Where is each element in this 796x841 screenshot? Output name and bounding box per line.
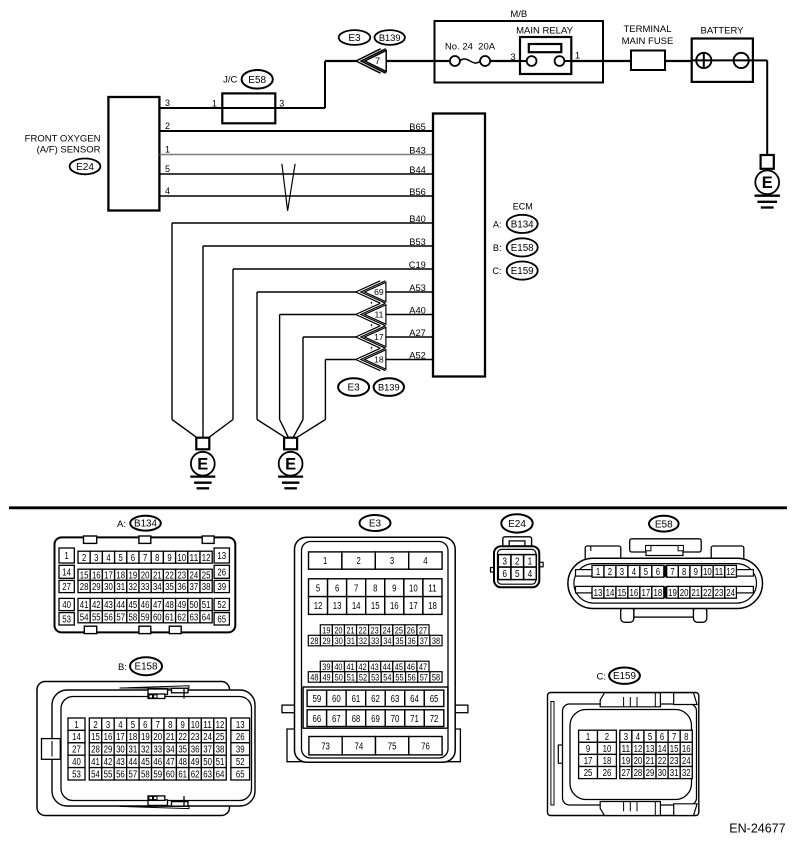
svg-text:3: 3	[165, 98, 170, 108]
svg-text:50: 50	[190, 600, 199, 611]
svg-text:61: 61	[352, 694, 361, 705]
wire main bus	[386, 59, 767, 62]
svg-text:62: 62	[177, 612, 186, 623]
svg-text:4: 4	[165, 186, 170, 196]
ECM pin labels	[409, 122, 426, 361]
svg-text:11: 11	[428, 583, 437, 594]
svg-text:25: 25	[584, 768, 593, 779]
svg-text:12: 12	[726, 567, 735, 578]
E158 bottom latch	[120, 796, 190, 809]
svg-text:69: 69	[374, 287, 384, 297]
svg-text:25: 25	[216, 732, 225, 743]
E3 row 66-72	[307, 710, 444, 727]
svg-text:MAIN RELAY: MAIN RELAY	[516, 26, 574, 37]
svg-text:41: 41	[91, 757, 100, 768]
svg-text:7: 7	[375, 56, 380, 67]
wire B43 shield	[160, 154, 434, 156]
ground E right	[278, 438, 303, 489]
svg-text:30: 30	[104, 582, 113, 593]
wire A40	[280, 315, 433, 420]
svg-text:18: 18	[129, 732, 138, 743]
svg-text:B134: B134	[134, 519, 157, 530]
svg-text:B56: B56	[409, 187, 426, 197]
junction connector J/C E58	[212, 70, 284, 123]
svg-text:13: 13	[646, 744, 655, 755]
svg-text:60: 60	[166, 769, 175, 780]
svg-text:55: 55	[395, 671, 403, 682]
svg-text:55: 55	[104, 769, 113, 780]
svg-text:E24: E24	[76, 162, 94, 173]
svg-text:14: 14	[606, 588, 615, 599]
svg-text:15: 15	[618, 588, 627, 599]
E58 pin row 13-24	[592, 586, 664, 599]
svg-text:3: 3	[502, 556, 507, 568]
svg-text:E3: E3	[369, 519, 382, 530]
ECM connector C: E159	[492, 262, 537, 280]
svg-text:7: 7	[672, 732, 677, 743]
svg-text:5: 5	[648, 732, 653, 743]
svg-text:22: 22	[358, 624, 366, 635]
svg-text:62: 62	[191, 769, 200, 780]
svg-text:64: 64	[216, 769, 225, 780]
connector B139 oval top	[375, 30, 405, 45]
svg-text:8: 8	[373, 583, 378, 594]
svg-text:62: 62	[371, 694, 380, 705]
svg-text:45: 45	[129, 600, 138, 611]
svg-text:1: 1	[165, 145, 170, 155]
svg-text:15: 15	[91, 732, 100, 743]
svg-text:11: 11	[715, 567, 724, 578]
svg-text:12: 12	[216, 720, 225, 731]
svg-text:A52: A52	[409, 351, 426, 361]
wire B44	[160, 173, 434, 175]
svg-text:20: 20	[634, 756, 643, 767]
svg-text:57: 57	[116, 612, 125, 623]
svg-text:51: 51	[202, 600, 211, 611]
svg-text:27: 27	[62, 582, 71, 593]
E3 rows 59-72 box	[303, 687, 448, 728]
svg-text:37: 37	[420, 635, 428, 646]
fuse box M/B	[435, 9, 604, 83]
svg-text:38: 38	[432, 635, 440, 646]
svg-text:52: 52	[217, 600, 226, 611]
svg-text:26: 26	[603, 768, 612, 779]
label E3 bottom	[360, 515, 391, 531]
svg-text:E: E	[762, 174, 773, 192]
svg-text:33: 33	[371, 635, 379, 646]
svg-text:56: 56	[116, 769, 125, 780]
svg-text:2: 2	[356, 556, 361, 567]
svg-text:1: 1	[528, 556, 533, 568]
svg-text:EN-24677: EN-24677	[729, 821, 785, 835]
svg-text:13: 13	[236, 720, 245, 731]
svg-text:4: 4	[632, 567, 637, 578]
svg-text:44: 44	[129, 757, 138, 768]
svg-text:5: 5	[316, 583, 321, 594]
svg-text:21: 21	[166, 732, 175, 743]
svg-text:8: 8	[155, 553, 160, 564]
svg-text:13: 13	[333, 601, 342, 612]
svg-text:40: 40	[62, 600, 71, 611]
svg-text:66: 66	[313, 714, 322, 725]
svg-text:3: 3	[624, 732, 629, 743]
svg-text:14: 14	[658, 744, 667, 755]
wire A53	[257, 292, 433, 420]
E158 left column pins	[68, 718, 85, 780]
svg-text:31: 31	[116, 582, 125, 593]
svg-text:26: 26	[217, 567, 226, 578]
ground E left	[190, 438, 215, 489]
label B: E158	[118, 657, 162, 675]
svg-text:36: 36	[177, 582, 186, 593]
svg-text:23: 23	[371, 624, 379, 635]
svg-text:54: 54	[383, 671, 391, 682]
svg-text:24: 24	[682, 756, 691, 767]
svg-text:27: 27	[419, 624, 427, 635]
svg-text:10: 10	[409, 583, 418, 594]
connector E3 oval bottom	[338, 378, 369, 396]
svg-text:1: 1	[586, 732, 591, 743]
E3 row 12-18	[309, 597, 442, 615]
E159 pin grid left block	[579, 730, 617, 743]
svg-text:36: 36	[408, 635, 416, 646]
label C: E159	[597, 668, 640, 684]
svg-text:42: 42	[92, 600, 101, 611]
svg-text:24: 24	[203, 732, 212, 743]
svg-text:7: 7	[156, 720, 161, 731]
wire B56	[160, 195, 434, 197]
svg-text:9: 9	[586, 744, 591, 755]
svg-text:E159: E159	[511, 266, 534, 277]
svg-text:28: 28	[91, 745, 100, 756]
svg-text:13: 13	[217, 551, 226, 562]
svg-text:75: 75	[388, 741, 397, 752]
svg-text:67: 67	[332, 714, 341, 725]
svg-text:23: 23	[715, 588, 724, 599]
wire battery ground drop	[766, 60, 768, 155]
svg-text:21: 21	[646, 756, 655, 767]
svg-text:12: 12	[202, 553, 211, 564]
svg-text:17: 17	[642, 588, 651, 599]
svg-text:32: 32	[682, 768, 691, 779]
svg-text:A27: A27	[409, 328, 426, 338]
svg-text:65: 65	[217, 614, 226, 625]
svg-text:28: 28	[80, 582, 89, 593]
svg-text:30: 30	[658, 768, 667, 779]
E159 pin grid right block	[620, 730, 692, 743]
svg-text:(A/F) SENSOR: (A/F) SENSOR	[37, 145, 101, 156]
svg-text:63: 63	[391, 694, 400, 705]
svg-text:43: 43	[116, 757, 125, 768]
svg-text:4: 4	[528, 568, 533, 580]
ECM box	[433, 114, 485, 377]
connector E24 pinout	[491, 537, 544, 588]
svg-text:ECM: ECM	[513, 201, 533, 211]
svg-text:1: 1	[64, 551, 69, 562]
svg-text:E58: E58	[655, 519, 673, 530]
svg-text:17: 17	[374, 332, 384, 342]
svg-text:9: 9	[392, 583, 397, 594]
connector B E158 pinout shell	[37, 682, 255, 816]
connector C E159 pinout shell	[548, 693, 699, 816]
svg-text:58: 58	[129, 612, 138, 623]
E3 row 19-27	[320, 624, 429, 635]
svg-text:39: 39	[322, 661, 330, 672]
ECM connector A: B134	[493, 215, 538, 233]
svg-text:47: 47	[419, 661, 427, 672]
svg-text:31: 31	[347, 635, 355, 646]
E159 bottom latch	[600, 802, 697, 816]
svg-text:14: 14	[62, 567, 71, 578]
svg-text:32: 32	[129, 582, 138, 593]
svg-text:7: 7	[354, 583, 359, 594]
B134 right column pins	[214, 548, 229, 625]
svg-text:63: 63	[203, 769, 212, 780]
front oxygen sensor E24	[25, 97, 160, 211]
svg-text:31: 31	[129, 745, 138, 756]
label E24 bottom	[501, 514, 532, 532]
svg-text:43: 43	[104, 600, 113, 611]
E3 row 59-65	[307, 690, 444, 706]
svg-text:36: 36	[191, 745, 200, 756]
svg-text:23: 23	[191, 732, 200, 743]
E24 pin grid	[498, 555, 536, 568]
svg-text:57: 57	[129, 769, 138, 780]
svg-text:54: 54	[91, 769, 100, 780]
svg-text:59: 59	[313, 694, 322, 705]
svg-text:28: 28	[310, 635, 318, 646]
arrow 7	[356, 49, 386, 73]
svg-text:40: 40	[72, 757, 81, 768]
svg-text:E159: E159	[613, 671, 636, 682]
svg-text:B43: B43	[409, 146, 426, 156]
svg-text:32: 32	[141, 745, 150, 756]
svg-text:68: 68	[352, 714, 361, 725]
svg-text:27: 27	[621, 768, 630, 779]
right ground funnel	[257, 420, 325, 438]
svg-text:15: 15	[371, 601, 380, 612]
wire B65	[160, 130, 434, 132]
svg-text:40: 40	[334, 661, 342, 672]
connector E3 pinout shell	[282, 537, 468, 762]
svg-text:38: 38	[216, 745, 225, 756]
svg-text:12: 12	[634, 744, 643, 755]
svg-text:12: 12	[314, 601, 323, 612]
svg-text:30: 30	[116, 745, 125, 756]
svg-text:58: 58	[432, 671, 440, 682]
connector A B134 pinout	[55, 536, 236, 634]
svg-text:7: 7	[670, 567, 675, 578]
svg-text:70: 70	[391, 714, 400, 725]
svg-text:B134: B134	[511, 219, 534, 230]
svg-text:69: 69	[371, 714, 380, 725]
E158 right column pins	[231, 718, 250, 780]
svg-text:56: 56	[408, 671, 416, 682]
svg-text:TERMINAL: TERMINAL	[623, 24, 671, 35]
svg-text:B139: B139	[379, 33, 401, 43]
svg-text:1: 1	[212, 98, 217, 108]
svg-text:3: 3	[390, 556, 395, 567]
svg-text:46: 46	[153, 757, 162, 768]
svg-text:17: 17	[584, 756, 593, 767]
svg-text:10: 10	[177, 553, 186, 564]
E3 row 48-58	[308, 671, 442, 682]
svg-text:8: 8	[168, 720, 173, 731]
svg-text:5: 5	[165, 164, 170, 174]
svg-text:48: 48	[165, 600, 174, 611]
svg-text:A53: A53	[409, 283, 426, 293]
svg-text:73: 73	[321, 741, 330, 752]
svg-text:52: 52	[359, 671, 367, 682]
svg-text:50: 50	[335, 671, 343, 682]
svg-text:71: 71	[410, 714, 419, 725]
svg-text:5: 5	[644, 567, 649, 578]
svg-text:48: 48	[178, 757, 187, 768]
label A: B134	[117, 516, 161, 531]
svg-text:6: 6	[335, 583, 340, 594]
svg-text:18: 18	[603, 756, 612, 767]
svg-text:32: 32	[359, 635, 367, 646]
svg-text:42: 42	[358, 661, 366, 672]
terminal main fuse	[622, 24, 674, 70]
svg-text:53: 53	[371, 671, 379, 682]
svg-text:11: 11	[374, 309, 383, 319]
svg-text:19: 19	[322, 624, 330, 635]
arrow 69	[356, 281, 386, 303]
fuse No. 24 20A	[445, 42, 496, 67]
wire A52	[325, 360, 433, 420]
svg-text:24: 24	[383, 624, 391, 635]
svg-text:29: 29	[322, 635, 330, 646]
svg-text:58: 58	[141, 769, 150, 780]
svg-text:10: 10	[603, 744, 612, 755]
svg-text:2: 2	[82, 553, 87, 564]
arrow 17	[356, 326, 386, 348]
svg-text:30: 30	[335, 635, 343, 646]
svg-text:7: 7	[143, 553, 148, 564]
svg-text:3: 3	[106, 720, 111, 731]
svg-text:E158: E158	[511, 243, 534, 254]
E159 top latch	[600, 693, 697, 707]
svg-text:6: 6	[660, 732, 665, 743]
svg-text:4: 4	[423, 556, 428, 567]
svg-text:C:: C:	[597, 671, 607, 682]
svg-text:3: 3	[94, 553, 99, 564]
svg-text:53: 53	[72, 769, 81, 780]
B134 middle grid	[78, 551, 212, 564]
svg-text:64: 64	[202, 612, 211, 623]
svg-text:17: 17	[409, 601, 418, 612]
svg-text:FRONT OXYGEN: FRONT OXYGEN	[25, 134, 101, 145]
svg-text:9: 9	[181, 720, 186, 731]
svg-text:31: 31	[670, 768, 679, 779]
svg-text:21: 21	[691, 588, 700, 599]
svg-text:65: 65	[430, 694, 439, 705]
svg-text:18: 18	[653, 588, 662, 599]
svg-text:21: 21	[346, 624, 354, 635]
svg-text:55: 55	[92, 612, 101, 623]
shield V mark	[282, 164, 295, 211]
ground E battery	[755, 155, 780, 208]
svg-text:76: 76	[421, 741, 430, 752]
svg-text:E58: E58	[248, 75, 266, 86]
svg-text:64: 64	[410, 694, 419, 705]
svg-text:2: 2	[165, 121, 170, 131]
svg-text:35: 35	[395, 635, 403, 646]
svg-text:A:: A:	[117, 519, 126, 530]
svg-text:33: 33	[141, 582, 150, 593]
svg-text:20: 20	[153, 732, 162, 743]
wire B53	[203, 246, 433, 420]
ECM connector B: E158	[493, 238, 538, 256]
svg-text:16: 16	[104, 732, 113, 743]
svg-text:C19: C19	[409, 260, 426, 270]
svg-text:42: 42	[104, 757, 113, 768]
svg-text:19: 19	[621, 756, 630, 767]
svg-text:BATTERY: BATTERY	[701, 26, 745, 37]
svg-text:48: 48	[310, 671, 318, 682]
svg-text:B44: B44	[409, 165, 426, 175]
svg-text:26: 26	[407, 624, 415, 635]
svg-text:3: 3	[279, 98, 284, 108]
svg-text:2: 2	[515, 556, 520, 568]
svg-text:3: 3	[620, 567, 625, 578]
svg-text:49: 49	[191, 757, 200, 768]
E3 row 28-38	[308, 635, 442, 646]
svg-text:6: 6	[131, 553, 136, 564]
svg-text:74: 74	[355, 741, 364, 752]
svg-text:59: 59	[141, 612, 150, 623]
svg-text:J/C: J/C	[223, 75, 237, 86]
svg-text:6: 6	[143, 720, 148, 731]
E3 row 1-4	[309, 552, 443, 569]
connector E3 oval top	[339, 30, 371, 45]
svg-text:B:: B:	[493, 243, 502, 253]
svg-text:22: 22	[178, 732, 187, 743]
svg-text:E3: E3	[347, 383, 360, 394]
wire sensor pin3	[160, 107, 326, 109]
wire C19	[233, 269, 433, 420]
svg-text:44: 44	[383, 661, 391, 672]
wire B40	[172, 223, 433, 420]
svg-text:27: 27	[72, 745, 81, 756]
sensor pin numbers	[165, 98, 170, 196]
svg-text:41: 41	[346, 661, 354, 672]
svg-text:17: 17	[116, 732, 125, 743]
svg-text:56: 56	[104, 612, 113, 623]
svg-text:44: 44	[116, 600, 125, 611]
svg-text:49: 49	[322, 671, 330, 682]
E3 row 39-47	[320, 661, 429, 672]
svg-text:22: 22	[703, 588, 712, 599]
svg-text:1: 1	[323, 556, 328, 567]
relay MAIN RELAY	[510, 26, 580, 75]
svg-text:1: 1	[74, 720, 79, 731]
svg-text:E3: E3	[348, 33, 361, 44]
svg-text:54: 54	[80, 612, 89, 623]
svg-text:61: 61	[178, 769, 187, 780]
svg-text:20: 20	[334, 624, 342, 635]
svg-text:47: 47	[153, 600, 162, 611]
svg-text:35: 35	[178, 745, 187, 756]
dashed links between arrows	[371, 302, 373, 351]
svg-text:29: 29	[646, 768, 655, 779]
svg-text:41: 41	[80, 600, 89, 611]
svg-text:9: 9	[167, 553, 172, 564]
connector B139 oval bottom	[374, 378, 404, 396]
svg-text:B40: B40	[409, 214, 426, 224]
svg-text:2: 2	[608, 567, 613, 578]
